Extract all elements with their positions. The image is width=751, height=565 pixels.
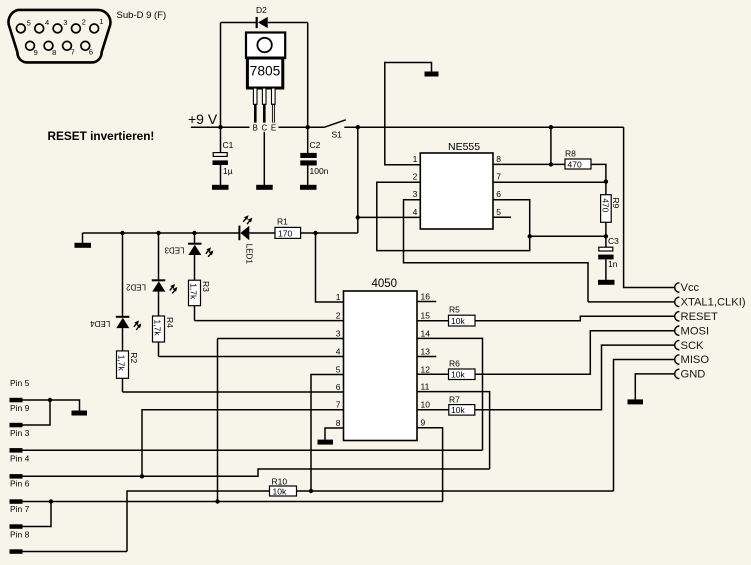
connector X1 Sub-D 9 (F) body [8, 10, 110, 63]
pin SCK [675, 340, 704, 352]
ground C2 [300, 185, 317, 190]
resistor R4 1,7k [153, 316, 175, 357]
ground GND pin [628, 399, 644, 404]
svg-text:5: 5 [27, 19, 31, 28]
svg-text:10k: 10k [451, 316, 465, 326]
svg-text:10k: 10k [273, 486, 287, 496]
svg-text:1: 1 [336, 292, 341, 302]
svg-text:GND: GND [681, 369, 706, 381]
wire RESET to R5 [475, 316, 675, 321]
resistor R1 170 [275, 217, 301, 239]
wire Pin3 to 4050 pin14 column [23, 449, 483, 451]
wire 4050 pin4 to R4 [159, 356, 344, 358]
LED LED2 chain [125, 233, 177, 316]
7805 pin labels B C E [250, 123, 279, 133]
svg-text:6: 6 [496, 189, 501, 199]
wire Pin9 up to Pin5 [23, 400, 51, 425]
wire Pin7 up to Pin6 [23, 502, 52, 527]
connector X1 pin 6 [81, 41, 93, 56]
ground LED rail [75, 233, 92, 248]
node rail/D2/C2 junction [306, 125, 310, 129]
connector X1 pin 9 [26, 41, 38, 56]
wire MISO down to R10 row [614, 360, 675, 492]
node pin8/rail junction [549, 162, 553, 166]
svg-text:R3: R3 [201, 281, 211, 292]
svg-text:B: B [253, 124, 258, 133]
connector X1 pin 1 [90, 17, 104, 33]
capacitor C1 [213, 127, 234, 185]
svg-text:16: 16 [421, 292, 431, 302]
node rail/R8 column [549, 125, 553, 129]
pin MISO [675, 354, 710, 366]
svg-text:R1: R1 [277, 217, 288, 227]
wire Pin4 to 4050 pin11 column [23, 469, 490, 476]
node LED4 junction [120, 231, 124, 235]
wire 4050 pin3 riser [217, 339, 219, 502]
svg-text:5: 5 [496, 207, 501, 217]
node rail/NE555-pin4 column [356, 125, 360, 129]
wire rail to Vcc pin [624, 127, 675, 287]
connector X1 pin 8 [44, 41, 56, 56]
7805 leg B [253, 88, 257, 104]
svg-text:6: 6 [336, 382, 341, 392]
wire XTAL1 [588, 301, 675, 303]
svg-text:3: 3 [413, 189, 418, 199]
wire pin2/6 loop branch to R9/C3 [530, 235, 606, 237]
svg-text:12: 12 [421, 365, 431, 375]
svg-text:R2: R2 [129, 352, 139, 363]
svg-text:NE555: NE555 [448, 141, 480, 153]
svg-text:LED2: LED2 [125, 282, 146, 291]
wire R10 to MISO column [297, 490, 614, 492]
wire LED rail [83, 232, 358, 234]
node R8/R9/pin7 junction [604, 179, 608, 183]
wire +9V rail left of switch [191, 126, 325, 128]
svg-text:1,7k: 1,7k [117, 355, 127, 372]
svg-text:+9 V: +9 V [188, 111, 218, 127]
wire 4050 pin1 to R1 output [316, 233, 344, 302]
svg-text:470: 470 [568, 160, 582, 170]
svg-text:5: 5 [336, 365, 341, 375]
node LED3 junction [192, 231, 196, 235]
connector X1 pin 3 [53, 18, 67, 33]
LED LED1 [238, 215, 253, 264]
capacitor C3 1n [598, 236, 619, 280]
resistor R8 470 [565, 149, 606, 195]
svg-text:Pin 8: Pin 8 [10, 529, 30, 539]
wire MOSI to R6 [475, 331, 675, 375]
svg-text:Vcc: Vcc [681, 282, 700, 294]
svg-text:1: 1 [413, 154, 418, 164]
svg-text:R7: R7 [449, 394, 460, 404]
svg-text:C2: C2 [310, 140, 321, 150]
wire NE555 pin4 stub [358, 216, 421, 218]
svg-text:C3: C3 [608, 236, 619, 246]
resistor R7 10k [449, 394, 475, 415]
ground Pin5 [72, 411, 88, 416]
svg-text:Pin 9: Pin 9 [10, 403, 30, 413]
svg-text:8: 8 [336, 418, 341, 428]
connector X1 pin 5 [16, 19, 30, 33]
wire 4050 pin13 stub [417, 356, 436, 358]
svg-text:D2: D2 [256, 5, 267, 15]
svg-text:7805: 7805 [250, 64, 281, 79]
svg-text:7: 7 [336, 400, 341, 410]
svg-text:3: 3 [63, 18, 67, 27]
svg-text:LED1: LED1 [244, 244, 253, 265]
svg-text:R10: R10 [272, 476, 288, 486]
node LED2 junction [156, 231, 160, 235]
svg-text:8: 8 [496, 154, 501, 164]
wire 4050 pin5 down to R10 [311, 375, 344, 492]
svg-text:E: E [271, 124, 276, 133]
svg-text:4050: 4050 [372, 278, 398, 290]
svg-text:Pin 5: Pin 5 [10, 378, 30, 388]
wire Pin8 riser to R10 [127, 491, 270, 552]
wire 7805 GND leg down [263, 132, 265, 185]
terminal Pin 6 [10, 499, 23, 504]
wire 4050 pin6 to R2 [123, 391, 344, 393]
svg-text:MISO: MISO [681, 354, 710, 366]
svg-text:4: 4 [413, 207, 418, 217]
connector X1 pin 7 [63, 41, 75, 56]
wire rail drop to NE555 pin8 [550, 127, 552, 164]
svg-text:8: 8 [52, 48, 56, 57]
wire 4050 pin14 down to Pin3 wire [417, 338, 483, 450]
svg-text:1µ: 1µ [223, 166, 233, 176]
svg-text:Pin 6: Pin 6 [10, 479, 30, 489]
wire Pin5 to ground [23, 400, 80, 411]
svg-text:14: 14 [421, 328, 431, 338]
svg-text:Sub-D 9 (F): Sub-D 9 (F) [117, 10, 167, 21]
regulator U2 7805 [246, 33, 285, 125]
svg-text:Pin 3: Pin 3 [10, 428, 30, 438]
resistor R9 470 [601, 195, 622, 247]
wire 4050 pin16 stub [417, 301, 436, 303]
svg-text:C: C [262, 124, 268, 133]
svg-text:1n: 1n [608, 259, 618, 269]
pin Vcc [675, 282, 700, 294]
wire Pin6 to 4050 pin9 column [23, 501, 443, 503]
wire 4050 pin11 down to Pin4 wire [417, 392, 490, 469]
svg-text:XTAL1,CLKI): XTAL1,CLKI) [681, 297, 746, 309]
svg-text:1,7k: 1,7k [189, 283, 199, 300]
connector X1 pin 2 [72, 18, 86, 33]
ground NE555 pin1 [425, 72, 439, 77]
svg-text:C1: C1 [223, 140, 234, 150]
terminal Pin 9 [10, 423, 23, 428]
svg-text:1: 1 [99, 17, 103, 26]
timer U1 NE555 [413, 141, 502, 229]
connector X1 pin 4 [35, 18, 49, 33]
resistor R3 1,7k [189, 280, 212, 320]
resistor R5 10k [449, 305, 476, 326]
wire D2 left leg down to +9V rail [220, 23, 222, 128]
wire 4050 pin3 [218, 338, 344, 340]
wire Pin8 to riser [23, 551, 128, 553]
svg-text:2: 2 [336, 311, 341, 321]
svg-text:7: 7 [496, 172, 501, 182]
svg-text:9: 9 [421, 418, 426, 428]
ground 4050 pin8 [318, 440, 334, 445]
resistor R10 10k [270, 476, 297, 496]
diode D2 [221, 5, 308, 28]
wire SCK to R7 [475, 345, 675, 410]
svg-text:11: 11 [421, 382, 430, 392]
svg-text:6: 6 [89, 48, 93, 57]
svg-text:R8: R8 [565, 149, 576, 159]
wire 4050 pin8 to ground [325, 428, 344, 440]
7805 leg E [272, 88, 276, 104]
buffer U3 4050 [336, 278, 430, 440]
switch S1 [325, 120, 346, 140]
wire 4050 pin10 to R7 [417, 409, 449, 411]
wire NE555 pin3 output to XTAL1 column [404, 200, 589, 302]
svg-text:15: 15 [421, 311, 431, 321]
node Pin5/Pin9 junction [48, 398, 52, 402]
capacitor C2 [300, 127, 328, 185]
wire 4050 pin15 to R5 [417, 320, 449, 322]
svg-text:Pin 4: Pin 4 [10, 454, 30, 464]
svg-text:10k: 10k [451, 405, 465, 415]
pin MOSI [675, 325, 709, 337]
terminal Pin 5 [10, 398, 23, 403]
pin RESET [675, 311, 718, 323]
svg-text:R4: R4 [165, 317, 175, 328]
wire 4050 pin7 [142, 410, 344, 477]
wire D2 right leg down to rail [307, 23, 309, 128]
node R9/C3 junction [604, 234, 608, 238]
wire NE555 pin5 stub [493, 216, 511, 218]
svg-text:9: 9 [34, 48, 38, 57]
svg-text:2: 2 [82, 18, 86, 27]
node R1 output junction [313, 231, 317, 235]
svg-text:MOSI: MOSI [681, 325, 710, 337]
LED LED4 chain [90, 233, 142, 351]
wire NE555 pin8 to R8 [493, 163, 565, 165]
terminal Pin 3 [10, 448, 23, 453]
resistor R6 10k [449, 358, 476, 379]
svg-text:10: 10 [421, 400, 431, 410]
svg-text:13: 13 [421, 347, 431, 357]
wire NE555 pin7 to R8/R9 junction [493, 181, 606, 183]
svg-text:1,7k: 1,7k [153, 320, 163, 337]
svg-text:470: 470 [601, 198, 611, 212]
ground C1 [212, 185, 229, 190]
wire GND pin to ground [635, 374, 675, 400]
node Pin4/4050-pin7 junction [140, 474, 144, 478]
svg-text:R6: R6 [449, 358, 460, 368]
svg-text:4: 4 [45, 18, 49, 27]
pin XTAL1,CLKI [675, 297, 746, 309]
svg-text:LED4: LED4 [90, 319, 111, 328]
svg-text:170: 170 [278, 229, 292, 239]
node rail/D2/C1 junction [218, 125, 222, 129]
svg-text:SCK: SCK [681, 340, 705, 352]
terminal Pin 7 [10, 524, 23, 529]
svg-text:3: 3 [336, 329, 341, 339]
LED LED3 chain [164, 233, 213, 280]
pin GND [675, 369, 706, 381]
svg-text:Pin 7: Pin 7 [10, 504, 30, 514]
node loop/branch junction [528, 234, 532, 238]
svg-text:7: 7 [71, 48, 75, 57]
terminal Pin 8 [10, 549, 23, 554]
node Pin6/4050-pin3 junction [215, 499, 219, 503]
wire NE555 pin2 to pin6 loop [377, 182, 530, 250]
svg-text:RESET invertieren!: RESET invertieren! [48, 129, 155, 143]
svg-text:LED3: LED3 [164, 246, 185, 255]
wire 4050 pin2 to R3 [195, 320, 344, 322]
svg-text:100n: 100n [310, 166, 329, 176]
wire 4050 pin12 to R6 [417, 373, 449, 375]
svg-text:2: 2 [413, 172, 418, 182]
node R10/4050-pin5 junction [309, 489, 313, 493]
svg-text:R9: R9 [611, 197, 621, 208]
svg-text:RESET: RESET [681, 311, 718, 323]
wire 4050 pin9 down to Pin6 wire [417, 428, 443, 502]
wire NE555 pin1 to top ground [385, 63, 432, 165]
svg-text:R5: R5 [449, 305, 460, 315]
svg-text:4: 4 [336, 347, 341, 357]
node NE555 pin4 junction [356, 215, 360, 219]
ground C3 [598, 280, 615, 285]
resistor R2 1,7k [117, 351, 140, 392]
terminal Pin 4 [10, 474, 23, 479]
ground 7805 [256, 185, 273, 190]
7805 leg C [262, 88, 266, 104]
wire rail right of switch [344, 126, 623, 128]
node Pin6/Pin7 junction [49, 499, 53, 503]
svg-text:S1: S1 [332, 129, 343, 139]
wire S1 column down to R1 output [357, 127, 359, 233]
svg-text:10k: 10k [451, 370, 465, 380]
